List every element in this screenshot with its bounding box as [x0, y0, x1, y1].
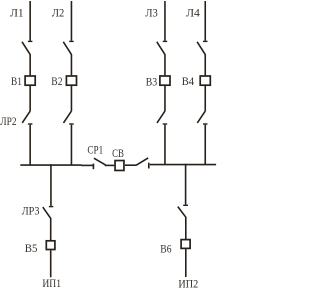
svg-text:СВ: СВ	[112, 146, 124, 160]
svg-text:ИП1: ИП1	[42, 276, 61, 289]
breaker В3	[160, 76, 170, 85]
breaker В2	[66, 76, 76, 85]
wire: disconnector to breaker В3	[164, 55, 166, 76]
disconnector blade (feeder Л1 upper)	[22, 42, 30, 55]
disconnector blade (feeder Л3 lower)	[157, 111, 165, 123]
disconnector ЛР2 fixed-contact tick	[28, 123, 33, 125]
wire: feeder Л4 lead-in	[204, 1, 206, 41]
svg-text:Л1: Л1	[10, 6, 24, 20]
svg-text:ЛР3: ЛР3	[22, 204, 40, 218]
wire: breaker В3 to lower disconnector	[164, 86, 166, 111]
disconnector fixed-contact tick (right of СВ)	[148, 163, 150, 169]
svg-text:СР1: СР1	[87, 143, 103, 157]
disconnector blade (feeder Л4 upper)	[197, 42, 205, 55]
wire: disconnector to breaker В6	[185, 217, 187, 239]
disconnector fixed-contact tick (feeder Л2 lower)	[69, 123, 74, 125]
wire: feeder Л3 lead-in	[164, 1, 166, 41]
wire: left bus to disconnector СР1	[81, 164, 94, 166]
disconnector СР1 blade	[94, 158, 106, 165]
wire: breaker СВ to right disconnector	[125, 164, 137, 166]
wire: breaker В2 to lower disconnector	[70, 86, 72, 111]
disconnector blade (В6 branch)	[178, 207, 186, 218]
wire: disconnector to breaker В4	[204, 55, 206, 76]
svg-text:Л2: Л2	[52, 6, 64, 20]
disconnector fixed-contact tick (feeder Л2 upper)	[69, 40, 74, 42]
wire: left bus to disconnector ЛР3	[50, 164, 52, 206]
breaker В6	[181, 240, 190, 249]
disconnector fixed-contact tick (feeder Л4 lower)	[203, 123, 208, 125]
disconnector ЛР3 fixed-contact tick	[49, 206, 53, 208]
wire: feeder Л2 lead-in	[70, 1, 72, 41]
wire: breaker В6 to source ИП2	[185, 249, 187, 277]
wire: lower disconnector to right bus	[164, 125, 166, 165]
wire: disconnector to breaker В2	[70, 55, 72, 76]
wire: right bus to В6 branch disconnector	[185, 164, 187, 205]
disconnector blade (right of СВ)	[136, 158, 148, 165]
svg-text:В1: В1	[11, 74, 22, 88]
breaker СВ (bus tie)	[115, 161, 124, 171]
svg-text:В2: В2	[51, 74, 62, 88]
wire: disconnector to breaker В1	[29, 55, 31, 76]
disconnector ЛР3 blade	[43, 207, 51, 219]
disconnector fixed-contact tick (В6 branch)	[183, 204, 188, 206]
wire: breaker В1 to disconnector ЛР2	[29, 86, 31, 111]
wire: feeder Л1 lead-in	[29, 1, 31, 41]
disconnector fixed-contact tick (feeder Л3 upper)	[163, 40, 168, 42]
svg-text:Л4: Л4	[186, 6, 200, 20]
disconnector blade (feeder Л2 lower)	[64, 111, 72, 123]
bus bar: right section	[150, 164, 216, 166]
breaker В4	[200, 76, 210, 85]
disconnector СР1 fixed-contact tick	[92, 164, 94, 170]
breaker В5	[46, 241, 55, 250]
svg-text:ЛР2: ЛР2	[0, 114, 16, 128]
wire: lower disconnector to right bus	[204, 125, 206, 165]
disconnector fixed-contact tick (feeder Л3 lower)	[163, 123, 168, 125]
wire: lower disconnector to left bus	[70, 125, 72, 166]
wire: disconnector ЛР3 to breaker В5	[50, 219, 52, 241]
svg-text:ИП2: ИП2	[178, 277, 198, 289]
wire: breaker В4 to lower disconnector	[204, 86, 206, 111]
disconnector fixed-contact tick (feeder Л1 upper)	[28, 40, 33, 42]
wire: disconnector ЛР2 to left bus	[29, 125, 31, 166]
disconnector blade (feeder Л2 upper)	[63, 42, 71, 55]
disconnector blade (feeder Л4 lower)	[197, 111, 205, 123]
breaker В1	[25, 76, 35, 85]
disconnector ЛР2 blade	[22, 111, 30, 123]
svg-text:Л3: Л3	[145, 6, 157, 20]
svg-text:В6: В6	[160, 242, 171, 256]
wire: disconnector СР1 to breaker СВ	[105, 164, 115, 166]
svg-text:В3: В3	[146, 74, 157, 88]
bus bar: left section	[20, 164, 81, 166]
svg-text:В5: В5	[25, 241, 38, 255]
svg-text:В4: В4	[182, 74, 194, 88]
disconnector blade (feeder Л3 upper)	[157, 42, 165, 55]
disconnector fixed-contact tick (feeder Л4 upper)	[203, 40, 208, 42]
wire: breaker В5 to source ИП1	[50, 250, 52, 277]
